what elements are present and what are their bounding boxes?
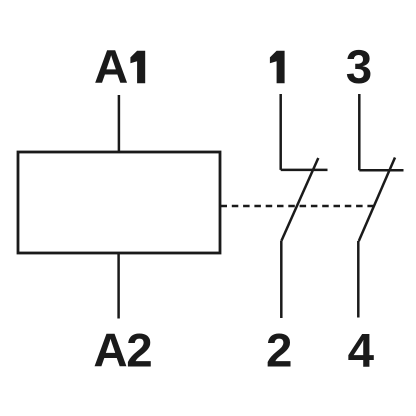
mechanical linkage (dashed) from coil to contact blades bbox=[221, 205, 375, 208]
label A1 bbox=[94, 41, 145, 94]
contact seat (fixed contact of pole 1-2) bbox=[281, 169, 328, 172]
svg-text:A: A bbox=[94, 41, 128, 94]
moving contact blade of pole 3-4 bbox=[359, 158, 395, 242]
svg-text:2: 2 bbox=[266, 325, 292, 378]
svg-text:4: 4 bbox=[348, 325, 375, 378]
moving contact blade of pole 1-2 bbox=[282, 158, 319, 241]
svg-text:A2: A2 bbox=[93, 325, 151, 378]
wire: A1 lead to coil top bbox=[118, 95, 121, 152]
wire: terminal 1 down lead bbox=[279, 94, 282, 170]
label 1 (terminal 1) bbox=[270, 51, 285, 83]
contact seat (fixed contact of pole 3-4) bbox=[359, 169, 403, 172]
svg-text:3: 3 bbox=[346, 41, 372, 94]
wire: coil bottom to A2 lead bbox=[117, 253, 120, 319]
coil K1 (rectangle) bbox=[18, 152, 220, 253]
wire: terminal 3 down lead bbox=[358, 94, 361, 170]
wire: pole 3-4 bottom lead bbox=[357, 241, 360, 318]
wire: pole 1-2 bottom lead bbox=[280, 241, 283, 318]
